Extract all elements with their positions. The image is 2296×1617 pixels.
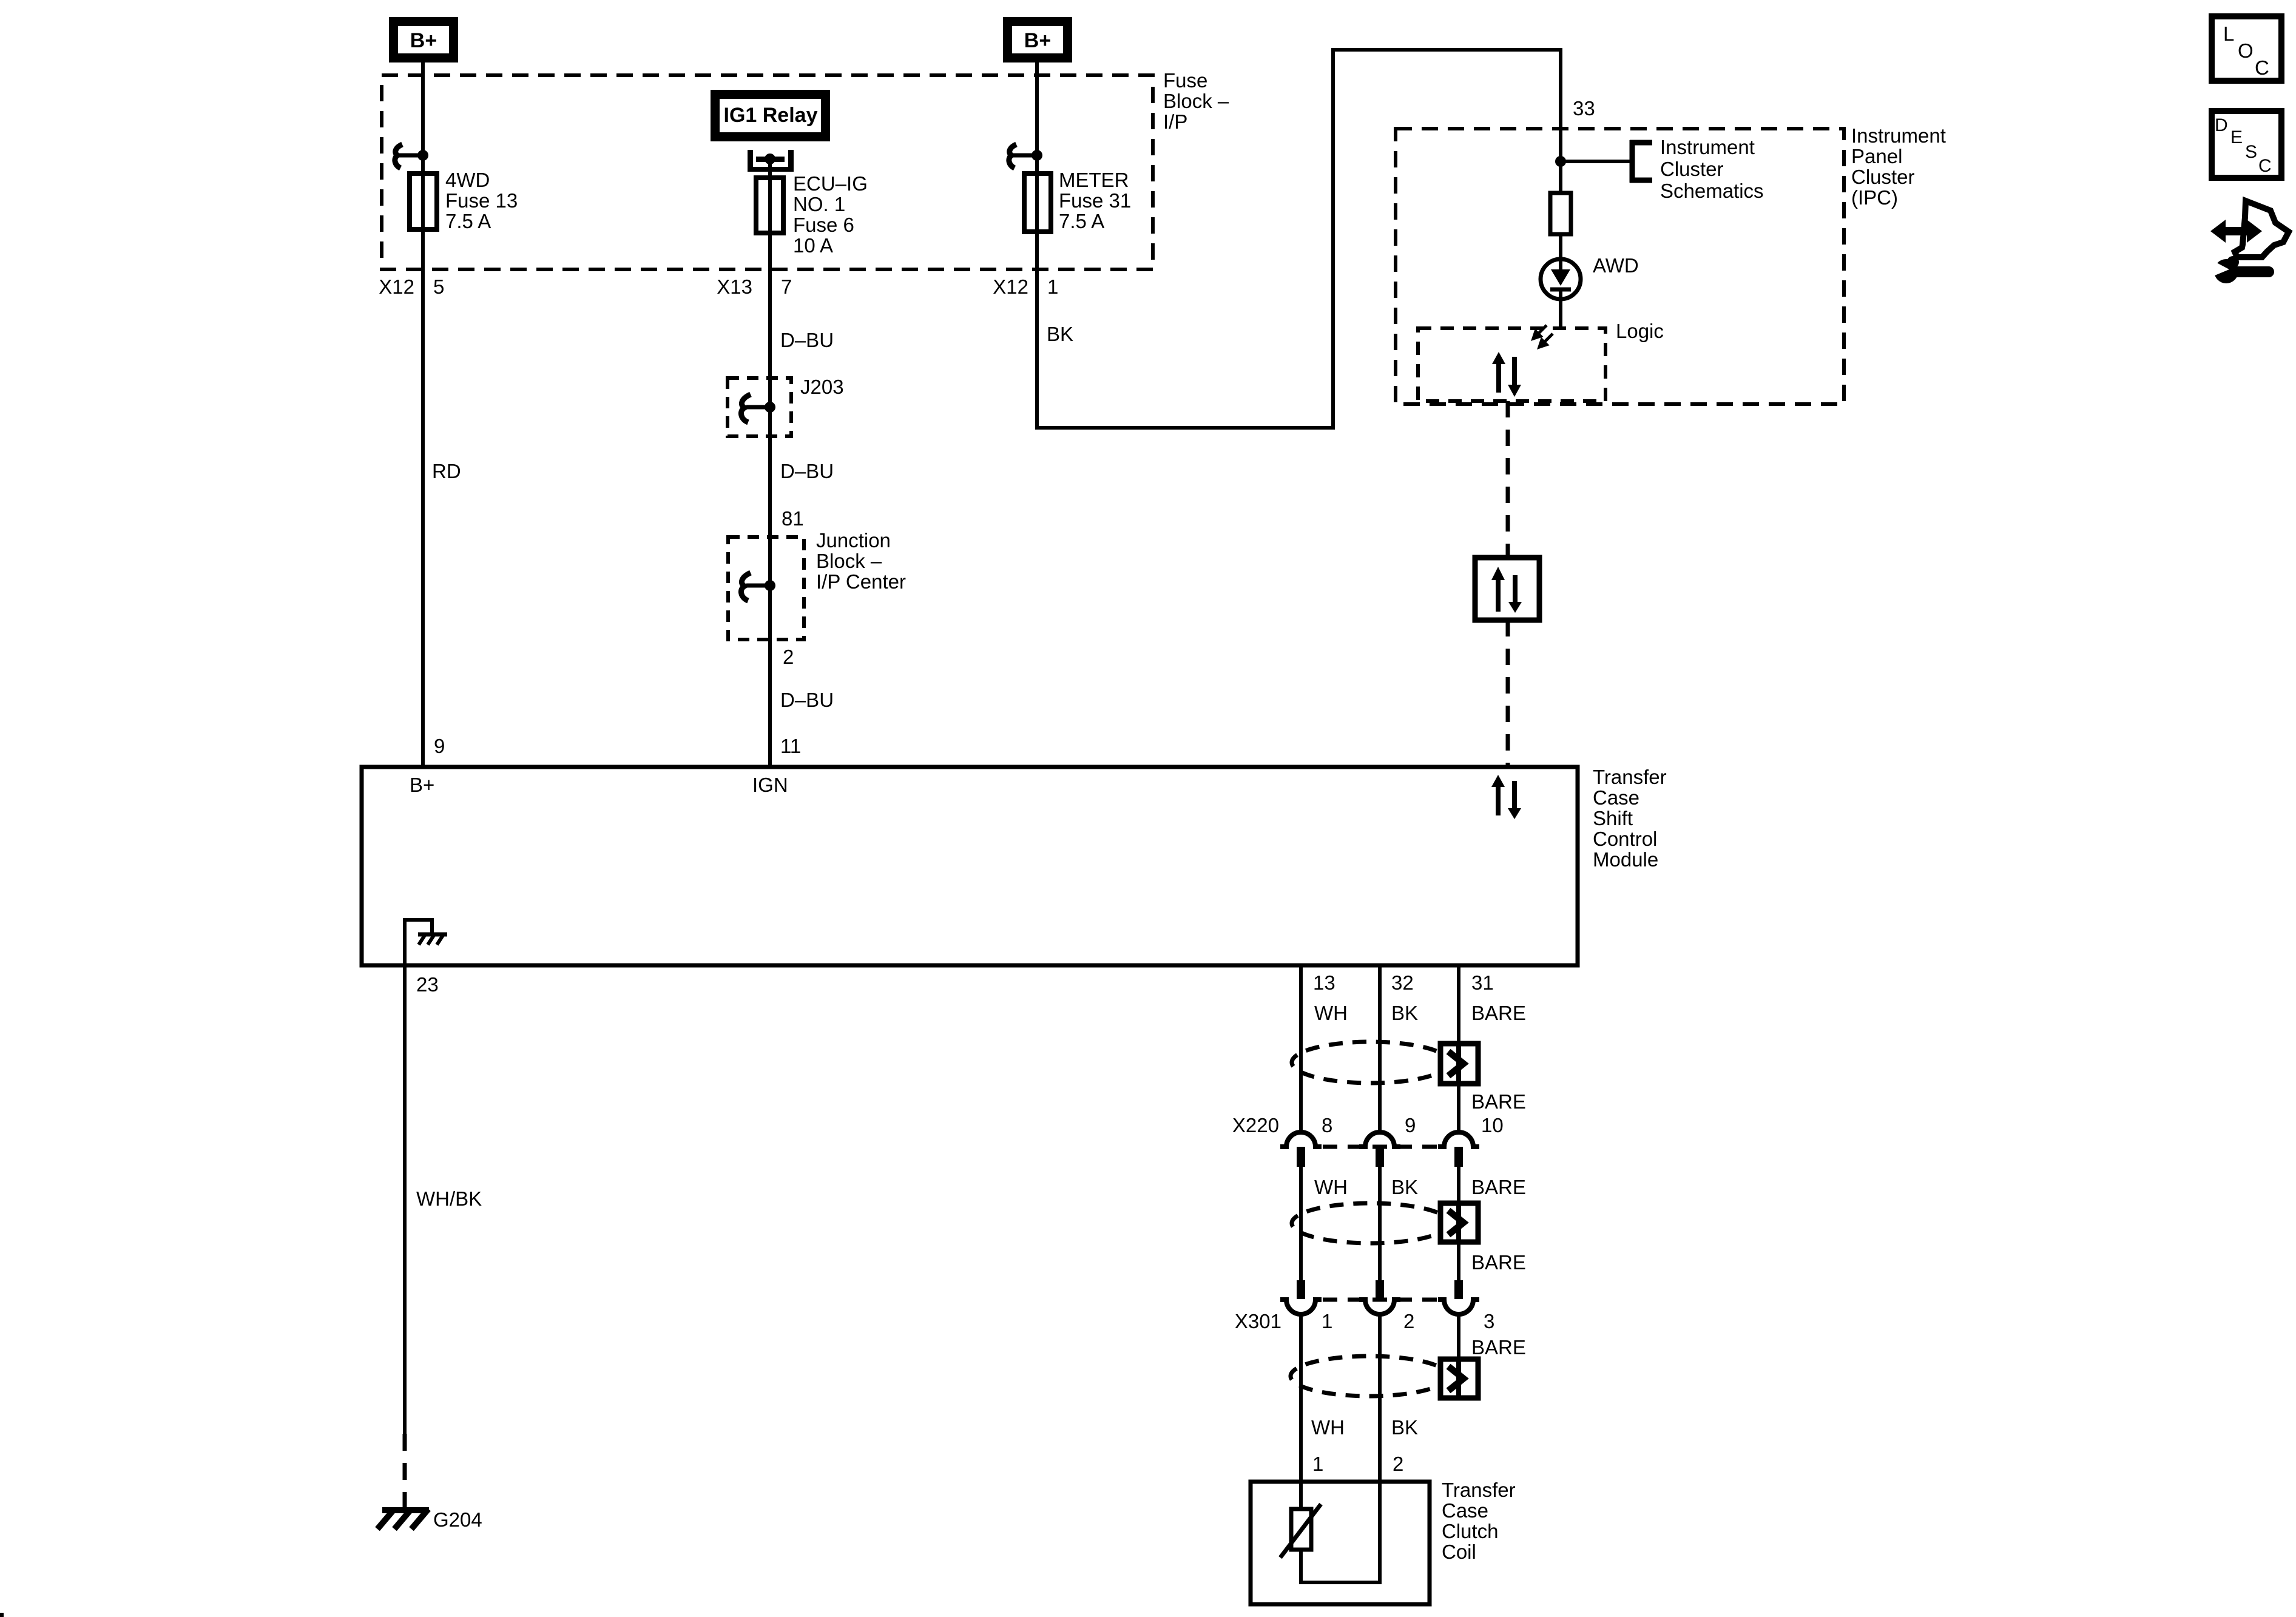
svg-text:Fuse 6: Fuse 6	[793, 214, 854, 236]
dashed wire to ground	[403, 1434, 407, 1508]
connector X220 labels	[1232, 1114, 1504, 1136]
svg-text:10 A: 10 A	[793, 234, 833, 257]
two-way serial data symbol box	[1475, 558, 1539, 620]
junction block hook	[741, 573, 768, 601]
svg-text:D: D	[2215, 115, 2228, 135]
branch hook at 4WD feed	[395, 144, 421, 168]
X220 male terminals	[1297, 1147, 1463, 1167]
svg-text:ECU–IG: ECU–IG	[793, 172, 868, 195]
svg-text:X12: X12	[993, 275, 1028, 298]
svg-text:J203: J203	[800, 376, 844, 398]
svg-text:METER: METER	[1059, 169, 1129, 191]
wire labels WH BK BARE	[1314, 1176, 1526, 1198]
svg-text:Module: Module	[1593, 848, 1658, 871]
node IPC feed	[1555, 156, 1566, 167]
fuse 4WD Fuse 13	[410, 174, 437, 229]
svg-text:X12: X12	[379, 275, 414, 298]
svg-text:10: 10	[1481, 1114, 1504, 1136]
svg-text:1: 1	[1047, 275, 1058, 298]
Logic dashed box	[1418, 328, 1606, 401]
svg-text:9: 9	[434, 735, 445, 757]
LED light arrows	[1533, 325, 1553, 347]
wire BK from module pin 32	[1378, 965, 1382, 1131]
LOC button	[2212, 16, 2281, 81]
svg-text:WH: WH	[1314, 1176, 1348, 1198]
node at METER feed	[1032, 150, 1042, 161]
fuse METER Fuse 31	[1024, 174, 1051, 232]
svg-text:NO. 1: NO. 1	[793, 193, 845, 215]
svg-text:RD: RD	[432, 460, 461, 482]
X220 connector dashed line	[1323, 1145, 1437, 1149]
svg-text:Fuse 31: Fuse 31	[1059, 189, 1131, 212]
wire to instrument cluster schematics pointer	[1561, 160, 1631, 163]
X301 female terminal pin 1	[1280, 1300, 1322, 1314]
svg-text:Junction: Junction	[816, 529, 891, 552]
svg-text:IGN: IGN	[752, 774, 788, 796]
wire B+ right down to METER fuse	[1035, 62, 1039, 174]
connector labels X12 1	[993, 275, 1058, 298]
svg-text:Case: Case	[1593, 786, 1639, 809]
LED indicator AWD	[1541, 259, 1581, 299]
svg-text:L: L	[2223, 22, 2234, 45]
dashed serial data wire to module	[1506, 620, 1510, 767]
svg-text:BK: BK	[1391, 1176, 1418, 1198]
svg-text:B+: B+	[410, 774, 434, 796]
X220 female terminal pin 10	[1438, 1132, 1479, 1147]
svg-text:Block –: Block –	[1163, 90, 1229, 112]
svg-text:Schematics: Schematics	[1660, 180, 1764, 202]
svg-text:E: E	[2230, 127, 2243, 147]
svg-text:7: 7	[781, 275, 792, 298]
svg-text:2: 2	[1393, 1453, 1403, 1475]
svg-text:Clutch: Clutch	[1442, 1520, 1499, 1542]
svg-text:C: C	[2255, 56, 2269, 79]
relay contact symbol under IG1 Relay	[748, 150, 794, 172]
svg-text:Block –: Block –	[816, 550, 882, 572]
svg-text:Panel: Panel	[1851, 145, 1902, 167]
svg-text:X301: X301	[1235, 1310, 1281, 1332]
twisted pair ellipse 2	[1292, 1203, 1450, 1243]
svg-text:Cluster: Cluster	[1851, 166, 1915, 188]
svg-text:X220: X220	[1232, 1114, 1279, 1136]
wire labels WH BK BARE	[1314, 1002, 1526, 1024]
wire WH from module pin 13	[1299, 965, 1303, 1131]
battery feed B+ (right)	[1003, 17, 1072, 62]
svg-text:81: 81	[782, 507, 804, 530]
svg-text:Logic: Logic	[1616, 320, 1664, 342]
wire resistor to LED	[1559, 234, 1562, 261]
svg-text:Fuse: Fuse	[1163, 69, 1207, 92]
IG1 Relay box	[711, 90, 830, 141]
svg-text:11: 11	[780, 735, 801, 757]
svg-text:1: 1	[1312, 1453, 1323, 1475]
svg-text:1: 1	[1322, 1310, 1332, 1332]
wire relay to ECU-IG fuse	[768, 159, 772, 178]
svg-text:Control: Control	[1593, 828, 1657, 850]
svg-text:WH: WH	[1314, 1002, 1348, 1024]
X301 female terminal pin 2	[1359, 1300, 1400, 1314]
svg-text:I/P Center: I/P Center	[816, 570, 906, 593]
svg-text:BK: BK	[1391, 1002, 1418, 1024]
node junction block	[765, 580, 775, 591]
svg-text:2: 2	[783, 646, 794, 668]
svg-text:D–BU: D–BU	[780, 329, 834, 351]
coil internal wiring	[1301, 1314, 1380, 1582]
svg-text:5: 5	[433, 275, 444, 298]
svg-text:13: 13	[1313, 971, 1335, 994]
wire LED to logic	[1559, 299, 1562, 328]
dashed serial data wire from logic	[1506, 401, 1510, 558]
node at 4WD feed	[417, 150, 428, 161]
J203 hook	[741, 394, 768, 422]
svg-text:BARE: BARE	[1471, 1176, 1526, 1198]
svg-text:(IPC): (IPC)	[1851, 186, 1898, 209]
node J203	[765, 402, 775, 413]
label Fuse Block - I/P	[1163, 69, 1229, 133]
svg-text:C: C	[2258, 156, 2272, 176]
page corner mark	[0, 1613, 4, 1617]
svg-text:D–BU: D–BU	[780, 689, 834, 711]
svg-text:23: 23	[416, 973, 439, 996]
svg-text:S: S	[2245, 142, 2257, 162]
internal ground symbol	[405, 920, 447, 965]
wire 4WD fuse down to module pin 9	[421, 229, 425, 767]
wires X301 down	[1301, 1314, 1459, 1582]
Fuse Block - I/P dashed enclosure	[382, 75, 1153, 269]
ground G204	[377, 1509, 429, 1529]
svg-text:Transfer: Transfer	[1442, 1479, 1516, 1501]
battery feed B+ (left)	[389, 17, 458, 62]
svg-text:AWD: AWD	[1593, 254, 1639, 277]
svg-text:B+: B+	[410, 29, 437, 52]
logic two-way arrows	[1492, 352, 1521, 397]
svg-text:7.5 A: 7.5 A	[1059, 210, 1104, 232]
wires X220 to X301	[1301, 1167, 1459, 1280]
svg-text:4WD: 4WD	[445, 169, 490, 191]
svg-text:O: O	[2238, 39, 2254, 62]
svg-text:I/P: I/P	[1163, 110, 1187, 133]
svg-text:WH/BK: WH/BK	[416, 1187, 482, 1210]
X301 female terminal pin 3	[1438, 1300, 1479, 1314]
hand with double arrow and wrench icon	[2207, 201, 2289, 283]
wire BARE drain from module pin 31	[1457, 965, 1460, 1131]
Transfer Case Shift Control Module box	[362, 767, 1578, 965]
svg-text:BARE: BARE	[1471, 1251, 1526, 1274]
connector labels X13 7	[717, 275, 792, 298]
svg-text:G204: G204	[433, 1508, 482, 1531]
svg-text:2: 2	[1403, 1310, 1414, 1332]
twisted pair ellipse 3	[1291, 1356, 1448, 1396]
shield drain termination 2	[1440, 1203, 1478, 1242]
svg-text:3: 3	[1484, 1310, 1494, 1332]
svg-text:IG1 Relay: IG1 Relay	[724, 104, 818, 127]
svg-text:BK: BK	[1047, 323, 1073, 345]
Instrument Panel Cluster dashed enclosure	[1396, 129, 1844, 404]
svg-text:7.5 A: 7.5 A	[445, 210, 491, 232]
coil element (thermistor symbol)	[1280, 1504, 1321, 1558]
svg-text:X13: X13	[717, 275, 752, 298]
svg-text:31: 31	[1471, 971, 1494, 994]
svg-text:Transfer: Transfer	[1593, 766, 1667, 788]
fuse ECU-IG NO.1 Fuse 6	[756, 178, 783, 233]
svg-text:Cluster: Cluster	[1660, 158, 1724, 180]
svg-text:B+: B+	[1024, 29, 1051, 52]
svg-text:WH: WH	[1311, 1416, 1345, 1439]
svg-text:9: 9	[1405, 1114, 1416, 1136]
svg-text:Instrument: Instrument	[1851, 124, 1946, 147]
X301 male terminals	[1297, 1280, 1463, 1299]
splice J203 dashed box	[728, 378, 791, 436]
Junction Block - I/P Center dashed box	[728, 537, 804, 640]
shield drain termination 1	[1440, 1044, 1478, 1084]
wire B+ left down to 4WD fuse	[421, 62, 425, 174]
pointer bracket to Instrument Cluster Schematics	[1630, 140, 1652, 183]
shield drain termination 3	[1440, 1359, 1478, 1398]
X301 connector dashed line	[1323, 1298, 1437, 1302]
svg-text:Coil: Coil	[1442, 1541, 1476, 1563]
resistor (IPC)	[1550, 193, 1571, 234]
wire ECU-IG fuse down to module pin 11	[768, 233, 772, 767]
svg-text:BARE: BARE	[1471, 1336, 1526, 1359]
X220 female terminal pin 9	[1359, 1132, 1400, 1147]
node at relay output	[765, 154, 775, 164]
connector labels X12 5	[379, 275, 444, 298]
coil pin labels 1 2	[1312, 1453, 1403, 1475]
branch hook at METER feed	[1009, 144, 1035, 168]
svg-text:D–BU: D–BU	[780, 460, 834, 482]
svg-text:32: 32	[1391, 971, 1414, 994]
svg-text:Fuse 13: Fuse 13	[445, 189, 518, 212]
svg-text:Shift: Shift	[1593, 807, 1633, 829]
Transfer Case Clutch Coil box	[1251, 1482, 1430, 1604]
svg-text:33: 33	[1573, 97, 1595, 120]
wire METER fuse down, right and up to IPC	[1037, 50, 1561, 428]
wire labels WH BK	[1311, 1416, 1418, 1439]
wire module pin 23 down	[403, 965, 407, 1434]
connector X301 labels	[1235, 1310, 1494, 1332]
svg-text:BARE: BARE	[1471, 1002, 1526, 1024]
twisted pair ellipse 1	[1292, 1042, 1450, 1083]
svg-text:8: 8	[1322, 1114, 1332, 1136]
X220 female terminal pin 8	[1280, 1132, 1322, 1147]
svg-text:BK: BK	[1391, 1416, 1418, 1439]
svg-text:BARE: BARE	[1471, 1090, 1526, 1113]
pin labels 13 32 31	[1313, 971, 1494, 994]
module two-way arrows	[1491, 775, 1521, 819]
svg-text:Instrument: Instrument	[1660, 136, 1755, 158]
svg-text:Case: Case	[1442, 1499, 1488, 1522]
DESC button	[2212, 111, 2281, 178]
